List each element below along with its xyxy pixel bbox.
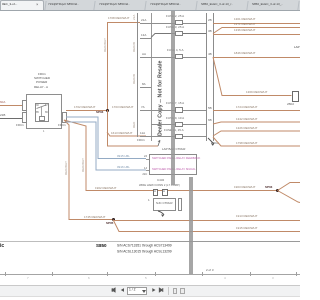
fuse panel left edge (151, 13, 152, 141)
fuse row 4 (151, 57, 206, 58)
active tab (0, 0, 44, 10)
relay pin numbers (36, 104, 39, 107)
watermark bar lower (189, 177, 194, 274)
tab 5 (197, 1, 248, 10)
relay FRC1 label (38, 73, 46, 76)
zone numbers (27, 277, 29, 280)
pin 1J (144, 167, 147, 170)
label SWITCHED PANEL RELAY FEEDBACK (152, 157, 200, 160)
label 1902 RED/WHT (95, 187, 117, 190)
serial numbers (117, 244, 172, 248)
label FRC1 left (16, 124, 24, 127)
tab 3 (95, 1, 146, 10)
fuse row 7 (151, 110, 206, 111)
C432 label (157, 179, 164, 182)
pin 11A (140, 136, 151, 137)
label SWITCHED PANEL RELAY SIGNAL (152, 168, 196, 171)
connector FRC1 left upper (22, 100, 27, 111)
wire 1708 vertical (107, 22, 108, 110)
prev page icon (121, 288, 124, 292)
label FRC1 bus bottom (137, 139, 145, 142)
border ticks (5, 272, 6, 276)
schematic bottom border (0, 274, 300, 275)
connector FRC1 left lower (22, 112, 27, 123)
fuse F4 (175, 54, 183, 60)
wire 1913 RED/WHT (113, 220, 300, 221)
label FRC2 bus bottom (211, 142, 219, 145)
toolbar extra icons (173, 288, 178, 295)
rotated labels on verticals (65, 161, 68, 175)
wire to vertical 69 (64, 120, 113, 220)
watermark text "Dealer Copy - Not for Resale" (157, 60, 163, 136)
tab 4 (146, 1, 197, 10)
bottom toolbar (0, 285, 300, 297)
fuse panel right edge (206, 13, 207, 141)
wire relay to SP03 (66, 110, 107, 111)
connector FRC2 vertical (213, 13, 214, 141)
C432 WIRE HARN CONN label (139, 184, 180, 187)
pin 4B (208, 53, 212, 56)
SJC CTRLR box (153, 198, 176, 211)
pin 2J (144, 155, 147, 158)
title block top border (0, 241, 170, 242)
title S850 (96, 243, 107, 248)
LAP BAR CTRLR label (162, 148, 185, 151)
pin 8A (140, 87, 151, 88)
connector C432 symbols (153, 189, 159, 196)
pin 6B (208, 119, 212, 122)
pin 3B (208, 30, 212, 33)
pin 2B (208, 19, 212, 22)
title text schematic (0, 243, 4, 249)
node SP05 (112, 218, 115, 221)
connector bus FRC1 vertical (137, 13, 138, 137)
wire battery feed left top (0, 105, 22, 106)
fuse row 9 (151, 124, 206, 125)
fuse row 2 (151, 23, 206, 24)
first page icon (112, 288, 115, 292)
wire left lower (0, 118, 22, 119)
fuse F2 (175, 20, 183, 26)
fuse F11 (175, 134, 183, 140)
wire 1301 RED/WHT (213, 23, 300, 24)
page number box (127, 287, 147, 295)
watermark bar upper (171, 11, 176, 185)
fuse F7 (175, 107, 183, 113)
fuse F9 (175, 122, 183, 128)
wire 1846 RED/WHT (213, 57, 300, 58)
wire SP03 down (107, 110, 108, 146)
relay inner box (35, 103, 49, 122)
browser tab bar (0, 0, 300, 11)
tab 6 (248, 1, 299, 10)
label 1745 RED/WHT (84, 216, 106, 219)
page label 2 of 3 (206, 269, 214, 272)
next page icon (152, 288, 155, 292)
connector FRC1 right (62, 112, 67, 123)
SJC left pin (148, 199, 150, 202)
label FRC1 right (58, 124, 66, 127)
wire to vertical 86 (64, 120, 278, 191)
rotated wire number along vertical (104, 38, 107, 52)
wire 1724 RED/WHT (213, 110, 300, 111)
node SP03 right (276, 189, 279, 192)
fuse F3 (175, 31, 183, 37)
connector C-lap (292, 91, 300, 102)
pin 5B (208, 107, 212, 110)
label LAP top right (294, 46, 300, 49)
fuse row 11 (151, 136, 206, 137)
relay outer box (26, 94, 62, 129)
lap bar ctrlr box (149, 154, 197, 175)
pin 21A (140, 23, 151, 24)
tab 2 (44, 1, 95, 10)
rotated wire numbers along FRC1 bus (133, 15, 136, 20)
wire 1336 RED/WHT (213, 34, 300, 35)
wire 1708 RED/WHT top (107, 22, 140, 23)
node SP03 left (106, 109, 109, 112)
SJC right connector (178, 198, 183, 211)
relay coil box (39, 116, 45, 121)
pin 7A (140, 110, 151, 111)
pin 13A (140, 38, 151, 39)
pin AA (140, 57, 151, 58)
